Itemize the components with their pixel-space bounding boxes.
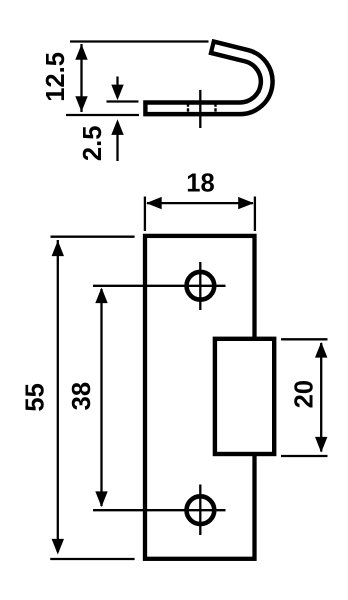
tab rectangle <box>215 339 274 454</box>
20 extension lines <box>281 338 328 340</box>
18 dimension line + arrows <box>147 202 253 204</box>
svg-text:2.5: 2.5 <box>79 126 107 162</box>
dimension line 12.5 <box>80 44 82 112</box>
svg-text:20: 20 <box>291 380 319 408</box>
38 dimension line + arrows <box>100 289 102 506</box>
holes <box>187 272 215 300</box>
arrow up 2.5 with shaft <box>116 132 118 161</box>
extension line top of plate (2.5) <box>107 100 139 102</box>
extension line top of hook <box>70 40 209 42</box>
svg-text:38: 38 <box>68 382 96 410</box>
20 dimension line + arrows <box>320 343 322 452</box>
plate rectangle <box>145 236 255 559</box>
svg-text:18: 18 <box>186 169 214 197</box>
svg-text:55: 55 <box>21 383 49 411</box>
55 extension lines <box>51 236 135 238</box>
svg-text:12.5: 12.5 <box>42 52 70 102</box>
arrow up 12.5 <box>75 44 87 60</box>
arrow down 2.5 with shaft <box>116 77 118 89</box>
centerline through plate <box>199 90 201 128</box>
arrow down 12.5 <box>75 96 87 112</box>
hole centerlines <box>199 262 201 310</box>
hidden hole lines (dashed) <box>187 103 189 111</box>
hook plate strip (side view) <box>143 47 267 109</box>
55 dimension line + arrows <box>57 240 59 552</box>
extension line bottom of plate <box>66 114 139 116</box>
18 extension lines <box>144 197 146 232</box>
